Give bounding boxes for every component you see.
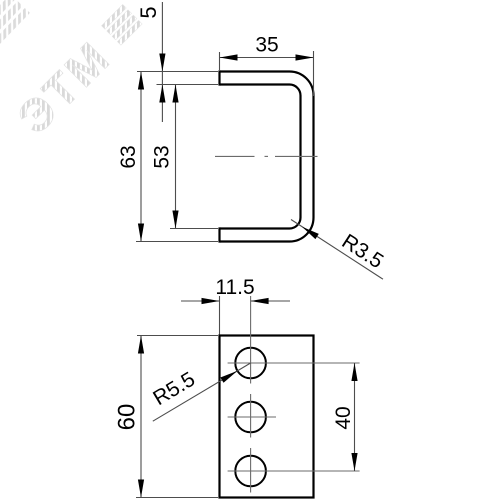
center line top view [215, 155, 318, 157]
hole H1 cross line [228, 362, 360, 364]
dimension 60 [114, 336, 219, 498]
watermark ЭТМ logo bars [101, 4, 142, 45]
dimension 40 [332, 363, 358, 471]
svg-text:53: 53 [151, 145, 174, 168]
hole H2 [235, 402, 266, 433]
watermark corner fragment [0, 0, 30, 46]
channel outer profile [220, 72, 314, 242]
hole H1 [235, 348, 266, 379]
dimension 35 [220, 34, 314, 97]
svg-text:35: 35 [255, 34, 278, 57]
radius callout R5.5 [149, 363, 250, 421]
plate outline [220, 336, 314, 498]
channel end caps [218, 70, 220, 242]
vertical center line of holes [250, 296, 252, 493]
svg-text:60: 60 [114, 404, 141, 431]
radius callout R3.5 [291, 220, 387, 280]
svg-text:11.5: 11.5 [215, 276, 254, 299]
dimension 63 [117, 72, 218, 242]
dimension 53 [151, 85, 219, 229]
hole H2 cross line [228, 416, 276, 418]
svg-text:63: 63 [117, 145, 140, 168]
hole H3 [235, 456, 266, 487]
hole H3 cross line [228, 470, 360, 472]
svg-text:5: 5 [136, 6, 161, 18]
dimension 5 [136, 2, 166, 122]
dimension 11.5 [181, 276, 290, 335]
watermark ЭТМ text [7, 30, 120, 143]
svg-text:40: 40 [332, 406, 355, 429]
channel inner profile [220, 85, 301, 229]
